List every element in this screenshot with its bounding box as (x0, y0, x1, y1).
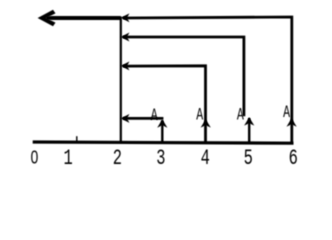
svg-text:0: 0 (31, 147, 39, 167)
svg-text:A: A (237, 107, 244, 126)
svg-text:A: A (283, 104, 290, 123)
svg-text:4: 4 (201, 145, 210, 170)
svg-text:6: 6 (289, 145, 298, 170)
svg-text:2: 2 (113, 145, 122, 170)
svg-text:A: A (196, 106, 203, 125)
svg-text:5: 5 (244, 145, 253, 170)
svg-text:A: A (151, 107, 158, 126)
svg-text:3: 3 (156, 145, 165, 170)
svg-text:1: 1 (64, 145, 73, 170)
